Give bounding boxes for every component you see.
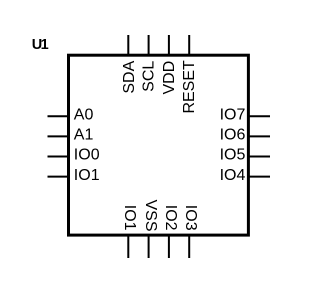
pin IO0 (left) wire — [48, 156, 69, 158]
svg-text:RESET: RESET — [181, 60, 198, 114]
svg-text:U1: U1 — [32, 37, 49, 53]
IC U1 body — [69, 55, 249, 235]
pin A0 (left) wire — [48, 115, 69, 117]
svg-text:VDD: VDD — [161, 61, 178, 95]
svg-text:IO2: IO2 — [162, 205, 179, 231]
pin IO1 (bottom) wire — [127, 235, 129, 258]
svg-text:IO5: IO5 — [220, 147, 246, 164]
pin IO4 (right) wire — [249, 176, 271, 178]
pin A1 (left) wire — [48, 135, 69, 137]
svg-text:SDA: SDA — [121, 60, 138, 93]
svg-text:IO7: IO7 — [220, 107, 246, 124]
pin IO1 (left) wire — [48, 176, 69, 178]
svg-text:IO1: IO1 — [74, 167, 100, 184]
pin RESET (top) wire — [188, 35, 190, 55]
pin VDD (top) wire — [168, 35, 170, 55]
pin IO6 (right) wire — [249, 135, 271, 137]
pin VSS (bottom) wire — [148, 235, 150, 258]
pin IO7 (right) wire — [249, 115, 271, 117]
svg-text:IO6: IO6 — [220, 127, 246, 144]
svg-text:IO1: IO1 — [121, 205, 138, 231]
svg-text:IO3: IO3 — [182, 205, 199, 231]
pin IO5 (right) wire — [249, 156, 271, 158]
svg-text:IO0: IO0 — [74, 147, 100, 164]
pin SDA (top) wire — [127, 35, 129, 55]
svg-text:A1: A1 — [74, 127, 94, 144]
pin IO2 (bottom) wire — [168, 235, 170, 258]
svg-text:IO4: IO4 — [220, 167, 246, 184]
svg-text:SCL: SCL — [141, 61, 158, 92]
pin IO3 (bottom) wire — [188, 235, 190, 258]
pin SCL (top) wire — [148, 35, 150, 55]
svg-text:A0: A0 — [74, 107, 94, 124]
svg-text:VSS: VSS — [142, 199, 159, 231]
